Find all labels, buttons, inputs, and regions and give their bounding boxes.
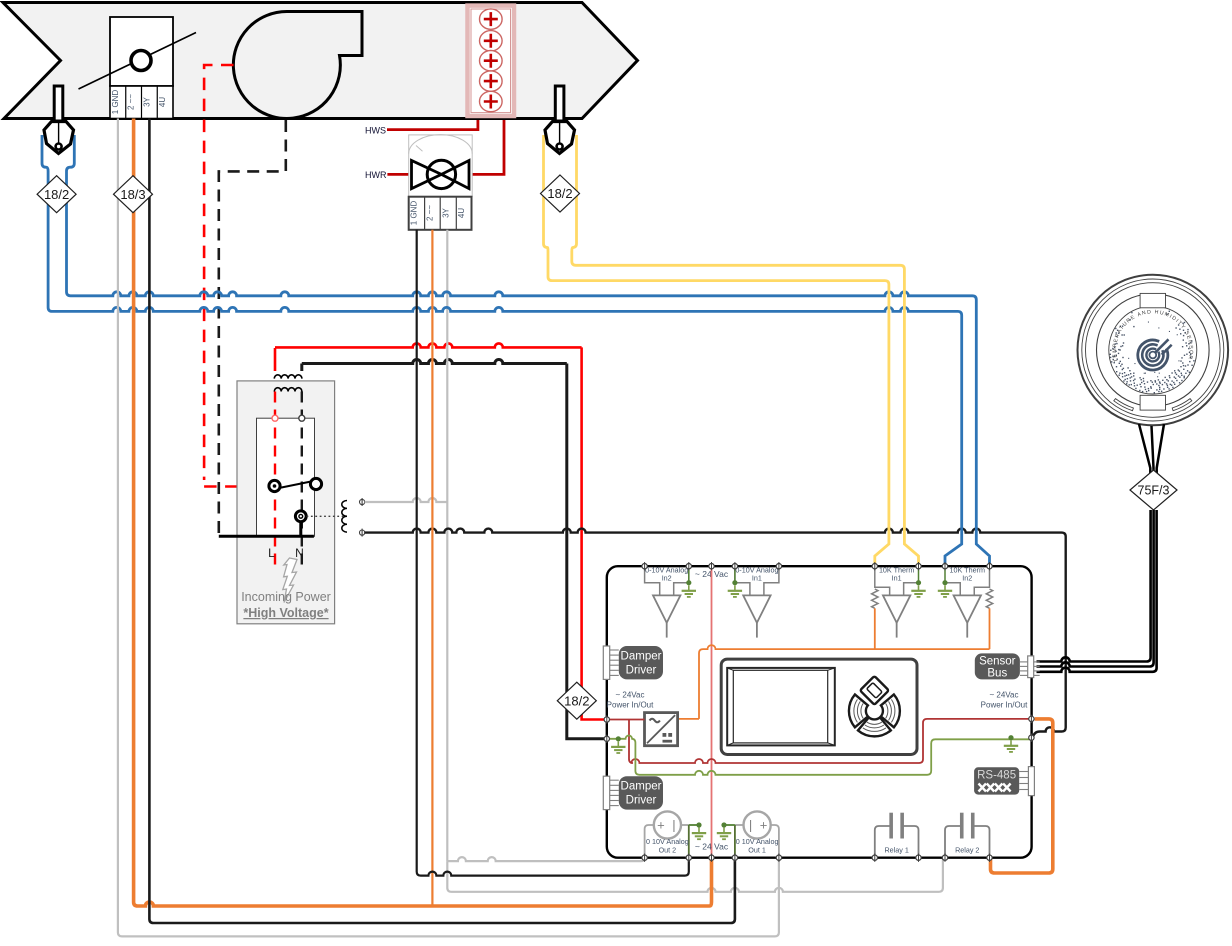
switch inner box [257, 418, 315, 536]
svg-text:Damper: Damper [621, 651, 662, 663]
dotted mechanical link to relay coil [307, 515, 346, 517]
svg-text:2 ~~: 2 ~~ [425, 205, 434, 221]
24Vac secondary hot wire (red) [275, 343, 582, 700]
switch blade [279, 482, 311, 489]
valve body (bowtie + ball) [412, 160, 470, 188]
relay coil RLY1 [342, 501, 347, 533]
svg-text:3Y: 3Y [441, 207, 450, 217]
duct temp sensor probe T2 (return) [545, 86, 575, 154]
controller terminal nodes [642, 564, 647, 569]
svg-text:Power In/Out: Power In/Out [607, 701, 654, 710]
valve supply pipe (coil to valve) [472, 120, 504, 174]
sensor vent slots [1114, 399, 1134, 411]
valve 2-wire orange drop [431, 230, 433, 906]
switch contact (throw) [310, 478, 321, 489]
fan power wire (hot, dashed red) [204, 65, 268, 487]
svg-text:+: + [657, 818, 665, 833]
supply sensor wires (blue pair) [42, 135, 962, 564]
valve actuator V1 body [409, 135, 473, 197]
switch contact (L) [269, 480, 280, 491]
heating coil HC1 (hot water coil) [468, 6, 515, 116]
return sensor wires (yellow pair) [544, 135, 889, 564]
svg-text:4U: 4U [158, 97, 167, 107]
blower / supply fan [233, 11, 362, 118]
high voltage lightning bolt [283, 558, 297, 603]
svg-text:N: N [295, 546, 304, 560]
therm2 resistor [986, 589, 992, 608]
gray wire to relay 2 [447, 858, 943, 892]
relay 2 contacts [945, 826, 990, 858]
hot water supply line HWS [387, 120, 478, 130]
svg-text:|: | [672, 818, 675, 833]
sensor cable (3 conductors) [1139, 424, 1164, 506]
svg-text:Relay 2: Relay 2 [955, 845, 979, 854]
24Vac internal feed (light red) [711, 566, 713, 858]
gray branch to controller analog out2 [447, 857, 644, 861]
orange thermistor collector wire [699, 645, 990, 719]
internal 24v common (olive) [607, 736, 1032, 775]
damper terminal strip [110, 86, 173, 119]
internal 24v hot (dark red) [607, 719, 1032, 763]
damper blade line [79, 33, 197, 90]
therm1 orange leg [874, 608, 876, 649]
svg-text:HWS: HWS [365, 125, 386, 135]
power supply (AC/DC) U2 [645, 713, 678, 746]
therm1 resistor [872, 589, 878, 608]
75F/3 cable tag [1130, 470, 1177, 510]
svg-text:Out 1: Out 1 [748, 845, 766, 854]
svg-text:|: | [749, 818, 752, 833]
damper driver 1 [603, 646, 609, 679]
jog from sensor drop to 24v common node [1031, 727, 1065, 737]
svg-text:18/2: 18/2 [564, 693, 589, 708]
right ground dot + symbol [1008, 735, 1013, 740]
hot water return line HWR [387, 173, 408, 176]
analog input 1 (0-10V) [735, 566, 779, 595]
svg-text:In1: In1 [892, 574, 902, 583]
10K therm input 2 [945, 566, 990, 595]
svg-text:Incoming Power: Incoming Power [241, 590, 331, 604]
svg-text:75F/3: 75F/3 [1138, 483, 1170, 497]
svg-text:In1: In1 [752, 574, 762, 583]
svg-text:Bus: Bus [987, 667, 1007, 679]
damper driver 2 [603, 776, 609, 809]
svg-text:~ 24Vac: ~ 24Vac [990, 691, 1019, 700]
sensor bus wires to controller [1037, 510, 1157, 672]
svg-text:L: L [268, 546, 275, 560]
L entry node [272, 415, 278, 421]
duct temp sensor probe T1 (supply) [44, 86, 74, 154]
24Vac secondary common wire (black) [302, 360, 605, 739]
svg-text:1 GND: 1 GND [111, 90, 120, 115]
in1 ground [734, 566, 736, 583]
svg-text:Power In/Out: Power In/Out [981, 701, 1028, 710]
valve terminal strip [409, 197, 472, 230]
N bus bottom (thick) [219, 521, 314, 536]
damper shaft circle [131, 51, 151, 71]
sensor mounting tabs [1140, 293, 1165, 410]
valve 1GND wire (black) to out terminal [417, 230, 689, 876]
svg-text:In2: In2 [962, 574, 972, 583]
18/2 cable tag (return sensor) [541, 175, 580, 212]
relay coil terminals [360, 499, 365, 504]
svg-text:Relay 1: Relay 1 [884, 845, 908, 854]
sensor logo (75F drop swirl) [1138, 340, 1171, 370]
svg-text:~ 24 Vac: ~ 24 Vac [695, 842, 729, 852]
damper 3Y wire (black) [149, 119, 735, 924]
orange 24v out to relay2 (thick) [991, 719, 1053, 873]
analog out 2 [645, 825, 654, 858]
relay common wire (black, coil bottom across to sensor bus drop) [365, 529, 1066, 728]
sensor bus block [975, 653, 1020, 679]
svg-text:3Y: 3Y [142, 96, 151, 106]
incoming power enclosure [237, 381, 335, 624]
in2 ground [688, 566, 690, 583]
svg-text:~ 24Vac: ~ 24Vac [616, 691, 645, 700]
svg-text:Driver: Driver [626, 795, 657, 807]
svg-text:RS-485: RS-485 [977, 770, 1016, 782]
svg-text:Sensor: Sensor [979, 655, 1016, 667]
svg-text:4U: 4U [457, 208, 466, 218]
svg-text:In2: In2 [662, 574, 672, 583]
svg-text:HWR: HWR [365, 170, 387, 180]
18/2 cable tag (supply sensor) [37, 176, 76, 213]
relay switched wire (gray, coil top to valve/controller net) [365, 498, 448, 502]
svg-text:1 GND: 1 GND [410, 201, 419, 226]
LCD display module [721, 659, 917, 754]
svg-text:+: + [760, 818, 768, 833]
transformer T1 primary/secondary coils [274, 375, 302, 392]
18/3 cable tag (damper) [114, 176, 153, 213]
svg-text:*High Voltage*: *High Voltage* [243, 606, 328, 620]
svg-text:18/3: 18/3 [120, 187, 145, 202]
RS-485 block [974, 767, 1019, 794]
damper 1GND wire (light gray) [118, 119, 779, 937]
relay actuating contact on N [295, 511, 306, 522]
therm2 ground [944, 566, 946, 583]
10K therm input 1 [875, 566, 919, 595]
navigation wheel [849, 676, 900, 736]
therm1 ground [918, 566, 920, 583]
svg-text:18/2: 18/2 [44, 187, 69, 202]
controller board outline [607, 566, 1032, 858]
N dashed lead (black) [301, 392, 303, 569]
svg-text:Driver: Driver [626, 665, 657, 677]
analog out 1 [771, 825, 779, 858]
N entry node [299, 415, 305, 421]
sensor face circle [1109, 306, 1197, 394]
fan power wire (neutral, dashed black) [219, 120, 286, 536]
svg-text:Out 2: Out 2 [659, 845, 677, 854]
left ground dot + symbol [616, 736, 621, 741]
damper actuator D1 [110, 17, 173, 86]
analog input 2 (0-10V) [645, 566, 689, 595]
L dashed lead (red) [274, 392, 276, 569]
sensor perforation dots [1110, 311, 1195, 394]
svg-text:Damper: Damper [621, 781, 662, 793]
svg-text:18/2: 18/2 [547, 186, 572, 201]
therm2 orange leg [989, 608, 991, 649]
valve 3Y gray wire down [446, 230, 448, 861]
relay 1 contacts [875, 826, 919, 858]
room temp/humidity sensor (75F) [1078, 275, 1229, 426]
duct (air handler body) [3, 3, 638, 119]
svg-text:2 ~~: 2 ~~ [127, 94, 136, 110]
damper 2-wire 24v feed (orange) [134, 119, 712, 907]
